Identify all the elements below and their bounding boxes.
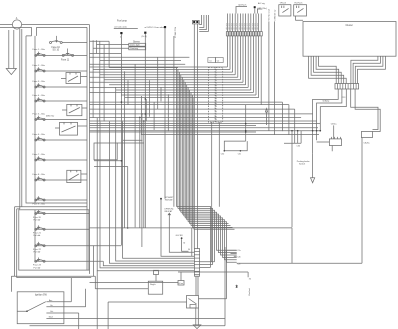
connector J4 bar [194, 249, 199, 277]
svg-text:Fu hldr: Fu hldr [34, 266, 41, 269]
wire fan stubs [227, 250, 237, 256]
svg-text:Opt/Tach: Opt/Tach [238, 3, 247, 6]
svg-text:Acc: Acc [49, 299, 52, 302]
svg-text:clstr wire: clstr wire [253, 23, 256, 30]
svg-text:Fu hldr: Fu hldr [34, 251, 41, 254]
svg-text:clstr wire: clstr wire [246, 23, 249, 30]
wire cluster right bundle [351, 56, 378, 83]
wire tach stub [236, 7, 247, 14]
svg-text:Fuse 9 - 30a: Fuse 9 - 30a [33, 204, 46, 206]
svg-text:Switch: Switch [299, 163, 306, 166]
wire upper left h [90, 54, 190, 68]
pin speedo [144, 32, 146, 34]
ground parking brake [311, 153, 315, 183]
svg-text:Fuse 6 - 30a: Fuse 6 - 30a [33, 134, 46, 136]
svg-text:30: 30 [183, 242, 185, 244]
svg-text:4 Whl Dr sw: 4 Whl Dr sw [274, 9, 276, 20]
svg-text:GLV BX: GLV BX [176, 235, 184, 237]
svg-text:clstr wire: clstr wire [235, 23, 238, 30]
wire leftmid verticals [92, 40, 94, 118]
svg-text:Fuel pmp: Fuel pmp [117, 19, 128, 22]
wire bottom right long [237, 262, 362, 264]
connector J3 bar [335, 84, 359, 90]
wire J4 to relay [196, 276, 198, 295]
svg-text:clstr wire: clstr wire [238, 23, 241, 30]
svg-text:4: 4 [120, 37, 121, 39]
svg-text:Courtesy: Courtesy [130, 47, 138, 50]
wire J1 line14 [260, 14, 262, 105]
dogleg bundle [139, 117, 141, 119]
wire CB8a feed [351, 89, 381, 132]
svg-text:Fuse 4 - 30a: Fuse 4 - 30a [33, 95, 46, 97]
wire J2 drop B [196, 24, 198, 249]
fuse F23 [37, 258, 39, 261]
svg-text:Batt feed: Batt feed [248, 288, 251, 296]
svg-text:C2c: C2c [237, 263, 240, 265]
wire bus right vertical [87, 25, 90, 274]
svg-text:C23: C23 [342, 97, 345, 99]
wire right stairs [282, 102, 294, 143]
ignition rotor [17, 302, 46, 312]
wire ign verticals [71, 245, 93, 329]
svg-text:clstr wire: clstr wire [256, 23, 259, 30]
svg-text:Parking brake: Parking brake [297, 160, 311, 163]
fuse F22 [37, 242, 39, 245]
wire pair ammeter down [15, 29, 22, 278]
relay K4 [67, 170, 81, 182]
wire bus branch step [26, 27, 37, 36]
svg-text:C1: C1 [209, 60, 211, 62]
connector C2 dashed [216, 67, 223, 122]
wire main bus top [0, 25, 90, 28]
svg-text:C2a: C2a [237, 250, 240, 252]
svg-text:CB 4a: CB 4a [331, 123, 338, 125]
connector J1 bundle [226, 14, 228, 68]
svg-text:Fuse 10: Fuse 10 [52, 47, 61, 49]
connector J2 box [192, 21, 199, 24]
ground starter [193, 308, 201, 329]
svg-text:Fuse 1 - 30a: Fuse 1 - 30a [33, 49, 46, 51]
fuse F11 [67, 49, 69, 55]
wire ac stub [257, 9, 262, 14]
svg-text:T.Flash: T.Flash [280, 3, 286, 5]
svg-text:Fuse 23: Fuse 23 [33, 265, 42, 267]
svg-text:clstr wire: clstr wire [227, 23, 230, 30]
wire bar left downs [313, 89, 347, 153]
svg-text:Start: Start [49, 316, 54, 319]
relay 4way box [329, 139, 341, 146]
wire v191 [191, 228, 193, 256]
svg-text:4WD Sw: 4WD Sw [46, 116, 55, 118]
wire J2 drop A [193, 24, 195, 249]
pin B [164, 26, 166, 28]
wire under cols [212, 122, 220, 262]
svg-text:clstr wire: clstr wire [248, 23, 251, 30]
ammeter gauge [12, 20, 21, 29]
ignition contacts [46, 302, 225, 319]
condenser box [154, 270, 159, 274]
wire fuse bus lower [34, 210, 36, 261]
svg-text:Fu hldr: Fu hldr [34, 219, 41, 222]
svg-text:Oil sw: Oil sw [178, 283, 183, 285]
dome light box [129, 43, 146, 46]
svg-text:Fuse 22: Fuse 22 [33, 249, 42, 251]
svg-text:C2: C2 [217, 60, 219, 62]
loop C30 [224, 141, 247, 151]
junction dots right [291, 130, 293, 132]
wire v245 [245, 105, 247, 142]
wire h41 [90, 40, 110, 42]
svg-text:Regltr: Regltr [150, 283, 156, 286]
svg-text:Veh Sp send: Veh Sp send [268, 9, 270, 20]
svg-text:C30: C30 [221, 154, 224, 156]
wire v292 down [291, 228, 293, 263]
svg-text:CB-8a: CB-8a [364, 143, 371, 145]
svg-text:A/C sig: A/C sig [258, 2, 266, 5]
fuse holder box [19, 210, 89, 270]
svg-text:Fuse 7 - 30a: Fuse 7 - 30a [33, 154, 46, 156]
svg-text:clstr wire: clstr wire [225, 23, 228, 30]
splice mark [236, 285, 238, 288]
svg-text:C31: C31 [238, 154, 241, 156]
svg-text:clstr wire: clstr wire [230, 23, 233, 30]
wire cluster left bundle [309, 56, 347, 83]
wire ign feed [11, 276, 14, 292]
battery feed arrow [6, 30, 16, 75]
wire regulator left [120, 244, 122, 246]
oil switch box [178, 281, 184, 286]
svg-text:Fuse 2 - 30a: Fuse 2 - 30a [33, 65, 46, 67]
wire v97 cont [96, 271, 98, 329]
fuse F20 [37, 210, 39, 213]
wire L wires [94, 161, 128, 228]
svg-text:clstr wire: clstr wire [251, 23, 254, 30]
svg-text:Ignition SW: Ignition SW [35, 293, 48, 296]
wire starter relay left [108, 302, 186, 329]
wire leftpair elbow [15, 276, 149, 289]
fuse F10 [56, 36, 58, 42]
wire h206 [22, 206, 87, 208]
wire drops to J4 [123, 122, 195, 259]
relay K1 [66, 73, 81, 84]
wire J2 elbows [199, 15, 208, 31]
wire oil switch [90, 272, 182, 283]
svg-text:clstr wire: clstr wire [240, 23, 243, 30]
wire stereo left [93, 45, 129, 49]
svg-text:Oct: Oct [50, 310, 54, 313]
ignition switch box [17, 292, 64, 324]
connector J2 pins [193, 21, 195, 23]
svg-text:Fuse 11: Fuse 11 [61, 59, 70, 61]
svg-text:Cluster: Cluster [346, 24, 354, 27]
svg-text:30: 30 [249, 279, 251, 281]
pin opt24 [254, 6, 256, 8]
courtesy box [129, 47, 146, 50]
svg-text:w/ SPDO Conn wheel: w/ SPDO Conn wheel [145, 27, 167, 29]
wire stub batt [247, 272, 249, 277]
starter relay box [187, 296, 199, 309]
svg-text:Fuse 8 - 30a: Fuse 8 - 30a [33, 174, 46, 176]
flasher E1 [279, 5, 291, 16]
fuse F21 [37, 225, 39, 228]
wire h272 [178, 271, 248, 273]
svg-text:INDICAT: INDICAT [164, 210, 173, 213]
wire bottom long [30, 325, 226, 327]
svg-text:(Dr 9): (Dr 9) [142, 35, 148, 38]
svg-text:Fuse 21: Fuse 21 [33, 233, 42, 235]
svg-text:Fuse 3 - 30a: Fuse 3 - 30a [33, 81, 46, 83]
wire bottomedge verts [199, 247, 227, 326]
pin fuel pump [120, 32, 122, 34]
relay K3 [60, 122, 78, 135]
svg-text:SG 10: SG 10 [53, 50, 60, 52]
svg-text:clstr wire: clstr wire [233, 23, 236, 30]
wire h227 [90, 227, 293, 229]
wiper box [94, 143, 117, 160]
flasher E2 [294, 5, 307, 16]
wire flasher to cluster [296, 16, 303, 20]
svg-text:30: 30 [188, 249, 190, 251]
svg-text:Fuse 5 - 30a: Fuse 5 - 30a [33, 113, 46, 115]
svg-text:clstr wire: clstr wire [243, 23, 246, 30]
svg-text:Fuse 20: Fuse 20 [33, 217, 42, 219]
breaker CB-8a [361, 132, 372, 138]
fuse panel box [26, 36, 87, 203]
wire rear wheel drop [173, 36, 175, 207]
svg-text:INDICAT: INDICAT [165, 199, 174, 202]
svg-text:Dome light: Dome light [130, 44, 140, 47]
svg-text:50 Amp: 50 Amp [323, 100, 331, 103]
svg-text:C2b: C2b [237, 256, 240, 258]
cluster box [303, 22, 396, 57]
connector C1 dashed [208, 67, 215, 122]
regulator box [148, 281, 162, 294]
wire CB8a down [361, 138, 363, 264]
relay K2 [67, 104, 82, 115]
wire center mesh [90, 66, 228, 68]
annotation arrow up [265, 109, 267, 126]
wire long horizontals [90, 101, 283, 103]
svg-text:Fu hldr: Fu hldr [34, 234, 41, 237]
svg-text:Hz.Flash: Hz.Flash [295, 3, 303, 5]
svg-text:C30: C30 [297, 146, 300, 148]
junction dots mid [145, 98, 147, 100]
